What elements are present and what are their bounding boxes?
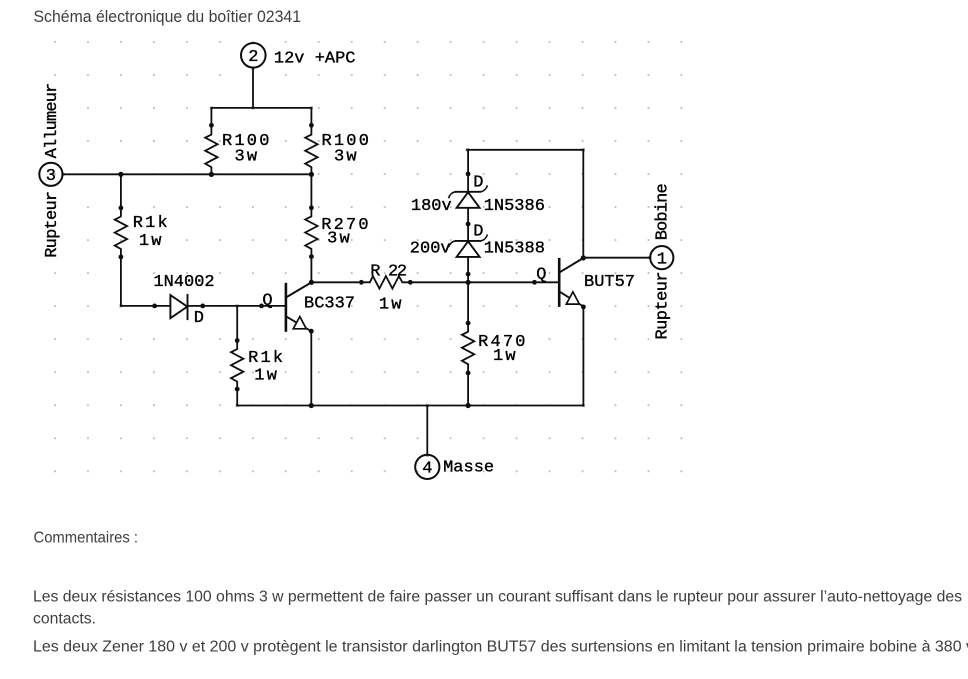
wire: masse stem — [426, 406, 428, 455]
junction: R100L top pin — [209, 123, 214, 128]
svg-text:Q: Q — [536, 265, 546, 284]
junction: zener to R22 bus — [466, 280, 471, 285]
zener diode D 1N5386 180v — [449, 185, 488, 207]
svg-text:3: 3 — [46, 167, 56, 186]
wire: collector bus with R22 — [311, 281, 361, 283]
junction: zener pins — [466, 172, 471, 177]
svg-text:R 22: R 22 — [370, 263, 406, 282]
svg-text:12v +APC: 12v +APC — [274, 50, 356, 69]
svg-text:BUT57: BUT57 — [584, 273, 635, 292]
svg-text:1N5386: 1N5386 — [484, 197, 545, 216]
resistor R270 3w — [305, 174, 317, 282]
svg-text:D: D — [194, 309, 204, 328]
svg-text:Bobine: Bobine — [654, 184, 673, 241]
svg-text:D: D — [473, 174, 483, 193]
svg-text:R1k: R1k — [133, 214, 170, 233]
node 4 terminal circle — [415, 455, 439, 479]
diode D 1N4002 — [170, 294, 187, 320]
wire: diode to base — [121, 305, 286, 307]
svg-text:R1k: R1k — [248, 349, 285, 368]
junction: BUT57 base pin — [532, 280, 537, 285]
svg-text:Rupteur: Rupteur — [654, 272, 673, 340]
junction and pin dots — [118, 123, 586, 408]
transistor Q2 BUT57 (darlington) — [559, 258, 583, 307]
wire: emitter vertical BC337 — [310, 331, 312, 405]
svg-text:1w: 1w — [379, 296, 404, 315]
resistor R470 1w — [462, 282, 474, 405]
svg-text:1w: 1w — [254, 367, 279, 386]
junction: node3 bus / R1k — [118, 172, 123, 177]
junction: BC337 collector node — [309, 280, 314, 285]
svg-text:2: 2 — [248, 48, 258, 67]
transistor Q1 BC337 — [286, 283, 311, 332]
zener diode D 1N5388 200v — [449, 235, 488, 257]
node 2 terminal circle — [241, 43, 266, 68]
svg-text:Allumeur: Allumeur — [43, 84, 62, 159]
svg-text:3w: 3w — [235, 147, 260, 166]
wire: node 3 bus — [63, 173, 312, 175]
junction: BUT57 emitter end — [581, 305, 586, 310]
svg-text:4: 4 — [422, 460, 432, 479]
svg-text:BC337: BC337 — [304, 295, 355, 314]
wire: emitter vertical BUT57 — [582, 307, 584, 405]
wire: zener chain vertical — [467, 150, 469, 282]
node 1 terminal circle — [650, 246, 673, 269]
wire: node 1 lead — [583, 257, 650, 259]
junction: R100L bottom — [209, 172, 214, 177]
svg-text:Les deux Zener 180 v et 200 v: Les deux Zener 180 v et 200 v protègent … — [33, 639, 968, 656]
svg-text:Commentaires :: Commentaires : — [34, 529, 139, 546]
gray corner handle markers — [61, 67, 651, 457]
svg-text:Q: Q — [262, 292, 272, 311]
junction: BC337 emitter ground bus — [309, 403, 314, 408]
junction: R100R bottom — [309, 172, 314, 177]
resistor R22 1w — [361, 276, 410, 288]
svg-text:Masse: Masse — [443, 459, 494, 478]
svg-text:200v: 200v — [410, 239, 451, 258]
wire: R22 to BUT57 base — [410, 281, 559, 283]
resistor R1k (lower) 1w — [231, 306, 243, 406]
junction: diode pins — [152, 304, 157, 309]
svg-text:3w: 3w — [327, 230, 352, 249]
resistor R1k (upper) 1w — [115, 174, 127, 306]
svg-text:contacts.: contacts. — [33, 611, 96, 628]
svg-text:1: 1 — [657, 250, 667, 269]
junction: BUT57 collector node — [581, 255, 586, 260]
node 3 terminal circle — [39, 163, 62, 186]
junction: R270 pins — [309, 205, 314, 210]
resistor R100 (right) 3w — [305, 108, 317, 175]
svg-text:1N5388: 1N5388 — [484, 239, 545, 258]
junction: BC337 emitter end — [309, 329, 314, 334]
svg-text:Rupteur: Rupteur — [43, 192, 62, 258]
wire: node 2 stem — [252, 68, 254, 108]
junction: R470 ground bus — [466, 403, 471, 408]
svg-text:Les deux résistances 100 ohms: Les deux résistances 100 ohms 3 w permet… — [33, 589, 962, 606]
wire: top supply bus — [211, 107, 311, 109]
svg-text:D: D — [473, 222, 483, 241]
wire: top right bus — [467, 149, 583, 151]
svg-text:3w: 3w — [334, 147, 359, 166]
junction: R1k lower pins — [235, 338, 240, 343]
svg-text:1w: 1w — [493, 347, 518, 366]
grid dot background of schematic — [50, 38, 686, 476]
junction: R100R top pin — [309, 123, 314, 128]
junction: R470 pins — [466, 321, 471, 326]
svg-text:1N4002: 1N4002 — [153, 273, 214, 292]
wire: right vertical to collector — [582, 150, 584, 258]
junction: R22 pins — [359, 280, 364, 285]
resistor R100 (left) 3w — [205, 108, 217, 175]
svg-text:Schéma électronique du boîtier: Schéma électronique du boîtier 02341 — [34, 7, 302, 26]
wire: ground bus — [237, 405, 583, 407]
svg-text:180v: 180v — [411, 197, 452, 216]
svg-text:1w: 1w — [139, 232, 164, 251]
junction: BC337 base pin — [259, 304, 264, 309]
junction: R1k upper pins — [119, 206, 124, 211]
